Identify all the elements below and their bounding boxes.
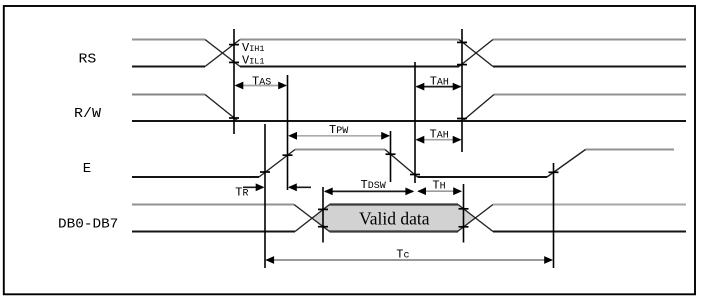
arrow TPW — [288, 132, 390, 140]
svg-text:TAH: TAH — [430, 127, 449, 141]
svg-text:VIL1: VIL1 — [242, 54, 265, 68]
wire DB low rail left — [132, 231, 295, 233]
svg-text:Tc: Tc — [396, 248, 409, 262]
svg-text:R/W: R/W — [74, 106, 102, 122]
RS right crossover — [459, 40, 493, 67]
RS left crossover — [205, 40, 240, 67]
E falling edge — [385, 150, 418, 178]
tick RW left — [229, 117, 239, 119]
svg-text:Valid data: Valid data — [359, 209, 430, 229]
tick E rise V3 — [283, 154, 293, 156]
wire R/W high rail right — [494, 94, 686, 96]
tick RS left high — [229, 44, 239, 46]
svg-text:TAH: TAH — [430, 74, 449, 88]
tick RS right high — [457, 41, 467, 43]
svg-text:TDSW: TDSW — [361, 178, 386, 192]
arrow at V3 pointing left — [288, 183, 311, 191]
arrow TAH upper — [416, 83, 462, 91]
arrow TDSW — [324, 188, 414, 196]
wire R/W high rail left — [132, 94, 205, 96]
tick DB right high — [459, 208, 469, 210]
wire E high rail right — [586, 149, 675, 151]
tick E fall V5 — [386, 153, 396, 155]
wire RS low rail left — [132, 66, 205, 68]
tick DB right low — [459, 226, 469, 228]
svg-text:TPW: TPW — [329, 123, 348, 137]
arrow TR pointing right — [243, 183, 265, 191]
svg-text:DB0-DB7: DB0-DB7 — [58, 216, 118, 232]
arrow TH — [417, 187, 462, 195]
arrow Tc — [265, 256, 553, 264]
E rising edge 1 — [259, 150, 295, 178]
svg-text:RS: RS — [79, 51, 97, 67]
wire DB high rail left — [132, 204, 294, 206]
wire RS high rail middle — [240, 39, 459, 41]
wire RS high rail right — [493, 39, 686, 41]
reference line V6 — [414, 62, 416, 183]
wire E low rail left — [132, 176, 259, 178]
reference line V7 lower — [463, 184, 465, 243]
DB left crossover — [294, 205, 330, 232]
reference line V8 — [553, 163, 555, 268]
wire R/W low rail full — [132, 120, 686, 122]
E rising edge 2 — [547, 150, 586, 178]
R/W falling edge — [205, 95, 238, 122]
wire DB low rail right — [493, 231, 686, 233]
tick DB left low — [318, 226, 328, 228]
svg-text:TH: TH — [432, 179, 445, 193]
DB right crossover — [458, 205, 494, 232]
valid data hexagon — [312, 205, 475, 232]
reference line V1 — [233, 29, 235, 134]
tick E rise V2 — [260, 171, 270, 173]
wire RS low rail right — [493, 66, 686, 68]
svg-text:E: E — [83, 161, 91, 177]
wire E high rail middle — [295, 149, 385, 151]
svg-text:TR: TR — [235, 186, 248, 200]
reference line V3 — [287, 75, 289, 190]
tick E rise V8 — [549, 171, 559, 173]
svg-text:TAS: TAS — [252, 74, 271, 88]
wire DB high rail right — [493, 204, 686, 206]
reference line V4 — [322, 187, 324, 243]
tick E fall V6 — [410, 174, 420, 176]
tick DB left high — [318, 208, 328, 210]
arrow TAH lower — [416, 136, 462, 144]
arrow TAS — [235, 82, 288, 90]
wire RS low rail middle — [240, 66, 459, 68]
reference line V5 — [390, 131, 392, 182]
tick RS right low — [457, 64, 467, 66]
R/W rising edge — [463, 95, 495, 122]
reference line V7 upper — [461, 29, 463, 152]
wire RS high rail left — [132, 39, 205, 41]
tick RW right — [457, 118, 467, 120]
wire E low rail middle — [418, 176, 548, 178]
tick RS left low — [229, 61, 239, 63]
reference line V2 — [264, 124, 266, 268]
